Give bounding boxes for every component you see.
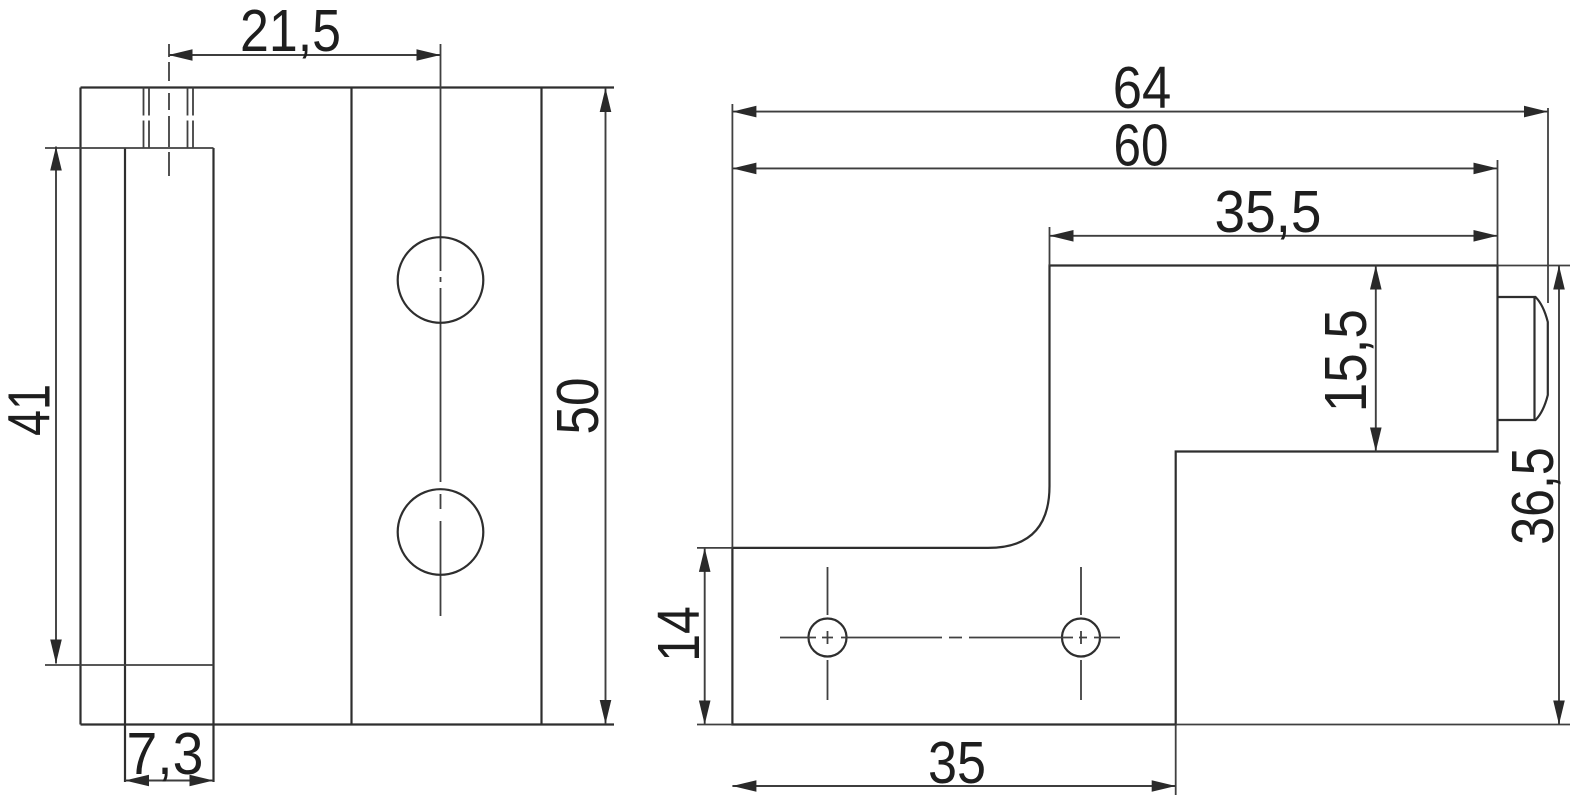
right view: bracket outline (step shape with fillet) <box>732 266 1497 725</box>
dimension 35,5 line <box>1050 235 1498 237</box>
left view: main body right edge <box>540 88 542 725</box>
left view: internal divider line <box>350 88 352 725</box>
left view: clamp plate top edge (extension to 41-dim) <box>45 147 214 149</box>
left view: clamp plate bottom edge (extension to 41-dim) <box>45 664 214 666</box>
right view: right edge extension for 60 dim <box>1497 160 1499 266</box>
left view: screw centerline <box>168 44 170 176</box>
dimension 50 top arrow <box>600 88 612 112</box>
right view: left extension line for 64/60 dims <box>731 104 733 548</box>
dimension 36,5 line <box>1558 266 1560 725</box>
dimension 35,5 left arrow <box>1050 230 1074 242</box>
dimension 64 left arrow <box>732 106 756 118</box>
dimension 35,5 right arrow <box>1474 230 1498 242</box>
left view: hole circle upper <box>398 237 484 323</box>
dimension 64 right arrow <box>1524 106 1548 118</box>
left view: hole circle lower <box>398 489 484 575</box>
dimension 50 line <box>605 88 607 724</box>
right view: upright left edge extension for 35,5 dim <box>1049 227 1051 266</box>
dimension 14 bottom extension line <box>697 724 732 726</box>
svg-text:7,3: 7,3 <box>127 721 204 787</box>
dimension 41 line <box>55 147 57 664</box>
dimension 21,5 left arrow <box>169 49 193 61</box>
dimension 15,5 bottom arrow <box>1370 428 1382 452</box>
dimension 41 top arrow <box>50 147 62 171</box>
svg-text:50: 50 <box>545 378 611 435</box>
dimension 14 top arrow <box>699 548 711 572</box>
left view: main body bottom edge (with extension to 50-dim) <box>81 723 615 725</box>
right view: hole left vertical centerline <box>827 567 829 700</box>
dimension 60 right arrow <box>1474 163 1498 175</box>
dimension 14 bottom arrow <box>699 701 711 725</box>
svg-text:64: 64 <box>1113 55 1172 121</box>
right view: mounting hole right <box>1062 619 1100 657</box>
dimension 35 right arrow <box>1152 780 1176 792</box>
dimension 21,5 right arrow <box>417 49 441 61</box>
dimension 14 top extension line <box>697 547 732 549</box>
right view: lower-right edge extension for 35 dim <box>1175 725 1177 796</box>
right view: knob face extension for 64 dim <box>1547 108 1549 303</box>
left view: main body top edge (with extension to 50-dim) <box>81 86 615 88</box>
dimension 7,3 line <box>125 780 214 782</box>
svg-text:15,5: 15,5 <box>1313 309 1379 412</box>
svg-text:14: 14 <box>646 606 712 662</box>
svg-text:41: 41 <box>0 384 63 436</box>
dimension 41 bottom arrow <box>50 640 62 664</box>
dimension 36,5 top arrow <box>1553 266 1565 290</box>
left view: screw thread hidden line 4 <box>192 88 194 149</box>
left view: screw thread hidden line 3 <box>187 88 189 149</box>
dimension 14 line <box>704 548 706 725</box>
dimension 60 left arrow <box>732 163 756 175</box>
left view: clamp plate right edge (extends to 7,3 dim) <box>212 148 214 782</box>
svg-text:35,5: 35,5 <box>1215 179 1322 245</box>
dimension 7,3 left arrow <box>125 775 149 787</box>
dimension 15,5 top arrow <box>1370 266 1382 290</box>
dimension 7,3 right arrow <box>190 775 214 787</box>
dimension 21,5 line <box>169 54 441 56</box>
svg-text:60: 60 <box>1114 113 1169 179</box>
dimension 35 line <box>732 785 1175 787</box>
left view: holes centerline <box>440 44 442 616</box>
dimension 36,5 bottom arrow <box>1553 701 1565 725</box>
svg-text:35: 35 <box>928 730 986 796</box>
left view: main body left edge <box>79 88 81 725</box>
svg-text:36,5: 36,5 <box>1500 447 1566 545</box>
right view: holes horizontal centerline <box>780 637 1120 639</box>
dimension 60 line <box>732 167 1497 169</box>
dimension 15,5 line <box>1375 266 1377 452</box>
right view: mounting hole left <box>809 619 847 657</box>
left view: screw thread hidden line 1 <box>143 88 145 149</box>
left view: clamp plate left edge (extends to 7,3 dim) <box>124 148 126 782</box>
dimension 64 line <box>732 111 1548 113</box>
svg-text:21,5: 21,5 <box>240 0 341 64</box>
right view: hole right vertical centerline <box>1080 567 1082 700</box>
right view: pivot knob face line <box>1533 297 1535 420</box>
right view: top edge extension to 36,5 dim <box>1498 265 1570 267</box>
right view: pivot knob outline <box>1498 297 1548 420</box>
dimension 50 bottom arrow <box>600 700 612 724</box>
left view: screw thread hidden line 2 <box>148 88 150 149</box>
dimension 35 left arrow <box>732 780 756 792</box>
right view: bottom edge extension to 36,5 dim <box>1176 724 1570 726</box>
